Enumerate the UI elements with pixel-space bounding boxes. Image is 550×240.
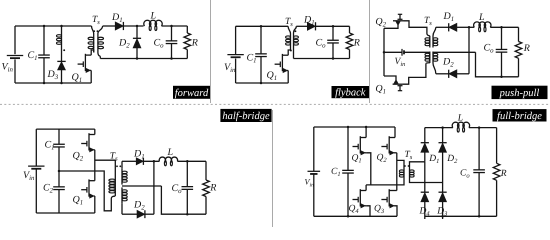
transistor Q2 (push-pull, horizontal) <box>393 20 404 22</box>
transistor Q1 (half-bridge) <box>88 179 90 196</box>
transistor Q4 (full-bridge) <box>359 189 361 206</box>
capacitor Co (forward) <box>170 25 173 28</box>
svg-text:L: L <box>150 10 157 21</box>
wire leg B vertical <box>396 153 398 191</box>
wire push-pull left rail <box>383 28 385 76</box>
diode D1 (flyback) <box>296 25 307 27</box>
node phase dot reset winding <box>63 49 65 51</box>
wire flyback output bottom rail <box>294 58 350 60</box>
wire divider horizontal dotted <box>0 103 550 105</box>
wire D2 riser to output node <box>468 27 470 74</box>
capacitor C1 (forward) <box>43 26 45 55</box>
svg-text:R: R <box>500 169 507 179</box>
diode D2 (full-bridge) <box>442 128 444 143</box>
svg-text:forward: forward <box>175 88 209 99</box>
svg-text:R: R <box>523 43 530 54</box>
svg-text:flyback: flyback <box>335 88 366 99</box>
resistor R (half-bridge) <box>205 161 207 180</box>
wire rectifier top rail <box>425 127 453 129</box>
wire divider vertical between half-bridge and full-bridge <box>272 110 274 227</box>
wire half-bridge top rail <box>36 128 95 130</box>
transistor Q1 (push-pull, horizontal) <box>393 83 403 85</box>
wire switch node <box>94 150 96 181</box>
label full-bridge title <box>493 109 547 121</box>
label push-pull title <box>492 86 548 99</box>
battery Vin (flyback) <box>235 26 237 54</box>
inductor L (push-pull) <box>469 26 474 28</box>
transistor Q2 (half-bridge) <box>88 133 90 150</box>
svg-text:R: R <box>209 183 216 194</box>
transformer Ts (half-bridge) <box>114 176 116 196</box>
transformer Ts (push-pull) <box>427 34 430 37</box>
diode D1 (push-pull) <box>436 26 449 28</box>
wire flyback top rail <box>236 25 289 27</box>
svg-text:L: L <box>167 147 174 158</box>
wire leg A horizontal to primary bottom <box>366 179 404 185</box>
wire forward output bottom rail <box>100 58 187 60</box>
battery Vin (forward) <box>14 26 16 54</box>
diode D1 (full-bridge) <box>424 128 426 143</box>
wire divider vertical between forward and flyback <box>210 0 212 103</box>
wire capacitor midpoint to primary <box>58 170 61 173</box>
capacitor Co (full-bridge) <box>478 126 481 129</box>
svg-text:half-bridge: half-bridge <box>222 111 270 122</box>
inductor L (half-bridge) <box>159 157 177 161</box>
resistor R (flyback) <box>349 26 351 33</box>
capacitor C1 (full-bridge) <box>347 127 349 170</box>
transistor Q3 (full-bridge) <box>388 189 390 206</box>
wire rectifier bottom rail <box>425 215 497 217</box>
diode D1 (forward) <box>103 25 116 27</box>
transformer Ts (full-bridge) <box>403 169 405 179</box>
inductor L (forward) <box>144 20 162 26</box>
node junctions forward input <box>43 25 46 28</box>
transistor Q1 (full-bridge) <box>359 136 361 153</box>
battery Vin (push-pull) <box>384 51 402 53</box>
svg-text:push-pull: push-pull <box>499 88 540 99</box>
diode D2 (forward) <box>136 25 139 28</box>
wire half-bridge bottom rail <box>36 212 95 214</box>
resistor R (forward) <box>186 26 188 33</box>
diode D1 (half-bridge) <box>122 160 136 162</box>
diode D2 (push-pull) <box>436 73 449 75</box>
svg-text:R: R <box>191 38 198 49</box>
diode D3 (full-bridge) <box>442 183 444 193</box>
transistor Q1 (forward) <box>84 54 86 71</box>
inductor reset winding (forward) <box>61 26 63 32</box>
wire secondary bottom lead <box>410 179 443 183</box>
wire flyback bottom rail <box>236 82 289 84</box>
wire forward bottom rail <box>15 82 91 84</box>
svg-text:full-bridge: full-bridge <box>497 111 542 122</box>
wire full-bridge input bottom rail <box>314 215 397 217</box>
wire forward top rail <box>15 25 92 27</box>
diode D4 (full-bridge) <box>424 162 426 192</box>
svg-text:R: R <box>353 38 360 49</box>
capacitor C2 (half-bridge) <box>58 171 60 187</box>
wire divider vertical between flyback and push-pull <box>369 0 371 103</box>
transistor Q1 (flyback) <box>281 54 283 71</box>
inductor L (full-bridge) <box>452 122 469 127</box>
capacitor C1 (flyback) <box>260 26 262 53</box>
label flyback title <box>332 86 370 98</box>
wire D2 riser <box>153 161 155 214</box>
wire secondary top lead <box>410 162 425 169</box>
label half-bridge title <box>220 109 271 122</box>
resistor R (full-bridge) <box>496 128 498 164</box>
battery Vin (half-bridge) <box>35 129 37 166</box>
label forward title <box>173 86 210 99</box>
battery Vin (full-bridge) <box>313 127 315 171</box>
wire half-bridge output return <box>161 186 206 214</box>
transformer Ts (forward) <box>92 26 94 34</box>
capacitor Co (flyback) <box>332 25 335 28</box>
capacitor Co (push-pull) <box>500 26 503 29</box>
wire primary top tap <box>397 160 404 168</box>
capacitor Co (half-bridge) <box>186 160 189 163</box>
wire full-bridge input top rail <box>314 126 395 128</box>
wire push-pull centre-tap return <box>476 52 519 77</box>
diode D3 <box>57 60 65 62</box>
svg-text:L: L <box>478 12 485 23</box>
svg-text:L: L <box>457 114 463 124</box>
transformer Ts (flyback) <box>288 26 290 33</box>
resistor R (push-pull) <box>518 27 520 41</box>
capacitor C1 (half-bridge) <box>58 129 60 144</box>
diode D2 (half-bridge) <box>122 213 137 215</box>
transistor Q2 (full-bridge) <box>388 136 390 153</box>
